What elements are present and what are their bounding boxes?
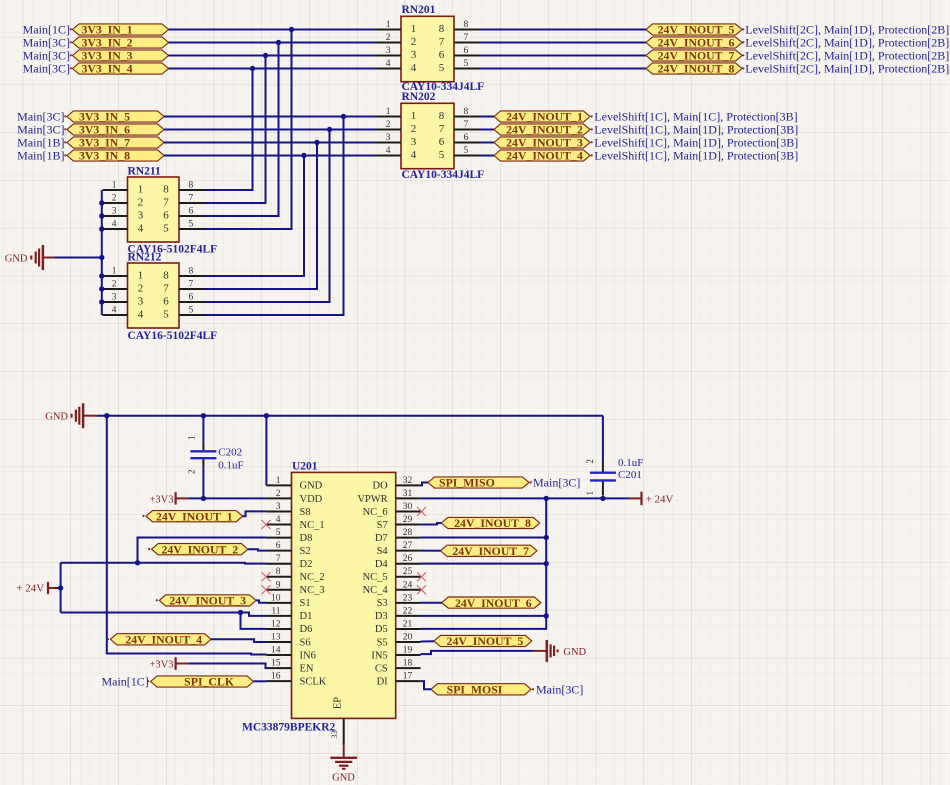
power symbol +24V right [629, 492, 674, 506]
port 24V_INOUT_6 [646, 36, 742, 50]
svg-text:1: 1 [112, 181, 117, 191]
svg-text:19: 19 [403, 646, 413, 656]
svg-text:D1: D1 [300, 611, 313, 622]
svg-text:S1: S1 [300, 598, 311, 609]
svg-text:Main[3C]: Main[3C] [17, 123, 64, 137]
svg-text:Main[3C]: Main[3C] [23, 49, 70, 63]
junction [263, 53, 268, 58]
svg-text:1: 1 [585, 491, 595, 496]
svg-text:D5: D5 [375, 624, 388, 635]
svg-text:2: 2 [138, 197, 144, 209]
wire RN202 pin 7 to 24V_INOUT_2 [479, 129, 494, 131]
wire RN211 pin 6 to 3V3_IN net [205, 43, 279, 217]
svg-text:Main[3C]: Main[3C] [23, 36, 70, 50]
svg-text:CAY16-5102F4LF: CAY16-5102F4LF [128, 330, 218, 342]
svg-text:5: 5 [439, 149, 445, 161]
svg-text:5: 5 [189, 220, 194, 230]
wire U201 pin 19 (IN5) to GND [421, 651, 534, 654]
junction [341, 114, 346, 119]
resistor network RN211 [103, 177, 205, 242]
svg-text:24V_INOUT_7: 24V_INOUT_7 [452, 544, 529, 558]
svg-text:SPI_CLK: SPI_CLK [184, 675, 235, 689]
svg-text:3: 3 [112, 293, 117, 303]
port 3V3_IN_4 [73, 62, 169, 76]
port 24V_INOUT_5 [646, 23, 742, 37]
no-connect X on U201 pin 8 [262, 572, 271, 581]
junction on GND bus at y=203 [99, 200, 104, 205]
svg-text:25: 25 [403, 567, 413, 577]
svg-text:17: 17 [403, 672, 413, 682]
junction VPWR / C201 [600, 496, 605, 501]
wire 24V_INOUT_1 to U201 pin 3 (S8) [243, 511, 267, 516]
wire 24V_INOUT_4 to U201 pin 13 (S6) [211, 639, 266, 642]
svg-text:11: 11 [271, 606, 280, 616]
svg-text:1: 1 [411, 23, 417, 35]
svg-text:24V_INOUT_6: 24V_INOUT_6 [455, 596, 532, 610]
wire 3V3_IN_6 to RN202 pin 2 [164, 129, 376, 131]
svg-text:7: 7 [276, 554, 281, 564]
svg-text:NC_1: NC_1 [300, 520, 325, 531]
no-connect X on U201 pin 24 [417, 585, 426, 594]
svg-text:D4: D4 [375, 559, 389, 570]
wire RN212 pin 8 to 3V3_IN net [205, 156, 305, 277]
svg-text:3: 3 [138, 210, 144, 222]
svg-text:5: 5 [464, 146, 469, 156]
no-connect X on U201 pin 9 [262, 585, 271, 594]
svg-text:20: 20 [403, 633, 413, 643]
port 3V3_IN_5 [67, 110, 164, 124]
svg-text:0.1uF: 0.1uF [618, 457, 643, 469]
svg-text:C202: C202 [218, 447, 242, 459]
power symbol +3V3 at U201 VDD [149, 492, 188, 505]
wire RN202 pin 8 to 24V_INOUT_1 [479, 116, 494, 118]
svg-text:10: 10 [271, 593, 281, 603]
net label LevelShift for 24V_INOUT_7 [742, 49, 949, 63]
svg-text:1: 1 [411, 110, 417, 122]
svg-text:Main[3C]: Main[3C] [536, 683, 583, 697]
svg-text:2: 2 [411, 123, 417, 135]
port 3V3_IN_3 [73, 49, 169, 63]
svg-text:2: 2 [187, 470, 197, 475]
svg-text:4: 4 [386, 59, 391, 69]
svg-text:6: 6 [439, 136, 445, 148]
svg-text:LevelShift[2C], Main[1D], Prot: LevelShift[2C], Main[1D], Protection[2B] [745, 36, 949, 50]
net label LevelShift for 24V_INOUT_2 [591, 123, 799, 137]
resistor network RN201 [376, 16, 479, 81]
svg-text:29: 29 [403, 515, 413, 525]
svg-text:2: 2 [276, 489, 281, 499]
junction bus/D3 [544, 613, 549, 618]
svg-text:2: 2 [112, 194, 117, 204]
svg-text:9: 9 [276, 580, 281, 590]
junction GND bus / left drop [104, 413, 109, 418]
svg-text:1: 1 [187, 436, 197, 441]
svg-text:24V_INOUT_8: 24V_INOUT_8 [454, 516, 531, 530]
svg-text:6: 6 [163, 296, 169, 308]
wire +24V branch to U201 pin 12 (D6) [241, 613, 267, 629]
junction [327, 127, 332, 132]
svg-text:15: 15 [271, 659, 281, 669]
resistor network RN202 [376, 103, 479, 168]
wire RN201 pin 7 to 24V_INOUT_6 [479, 42, 646, 44]
svg-text:1: 1 [138, 184, 144, 196]
wire RN211 pin 5 to 3V3_IN net [205, 30, 292, 230]
port SPI_MISO [428, 476, 529, 490]
svg-text:+3V3: +3V3 [149, 494, 173, 505]
svg-text:Main[1C]: Main[1C] [101, 675, 148, 689]
svg-text:C201: C201 [618, 469, 642, 481]
svg-text:24: 24 [403, 580, 413, 590]
svg-text:21: 21 [403, 620, 413, 630]
wire RN202 pin 6 to 24V_INOUT_3 [479, 142, 494, 144]
svg-text:RN212: RN212 [128, 252, 162, 264]
svg-text:GND: GND [5, 254, 28, 265]
svg-text:S4: S4 [377, 546, 389, 557]
svg-text:4: 4 [112, 306, 117, 316]
wire 24V_INOUT_3 to U201 pin 10 (S1) [256, 600, 266, 602]
svg-text:8: 8 [163, 184, 169, 196]
wire 3V3_IN_3 to RN201 pin 3 [169, 55, 377, 57]
svg-text:7: 7 [464, 33, 469, 43]
wire 3V3_IN_7 to RN202 pin 3 [164, 142, 376, 144]
svg-text:6: 6 [163, 210, 169, 222]
svg-text:GND: GND [563, 647, 586, 658]
wire RN212 pin 5 to 3V3_IN net [205, 117, 344, 316]
port 24V_INOUT_2 [494, 123, 590, 137]
wire 3V3_IN_8 to RN202 pin 4 [164, 155, 376, 157]
svg-text:2: 2 [138, 283, 144, 295]
svg-text:3: 3 [138, 296, 144, 308]
svg-text:7: 7 [439, 123, 445, 135]
port 24V_INOUT_4 (lower) [107, 633, 211, 647]
net label LevelShift for 24V_INOUT_6 [742, 36, 949, 50]
svg-text:24V_INOUT_5: 24V_INOUT_5 [658, 23, 735, 37]
svg-text:3V3_IN_2: 3V3_IN_2 [81, 36, 132, 50]
junction [289, 27, 294, 32]
svg-text:GND: GND [332, 773, 355, 784]
svg-text:LevelShift[2C], Main[1D], Prot: LevelShift[2C], Main[1D], Protection[2B] [745, 23, 949, 37]
svg-text:7: 7 [163, 197, 169, 209]
svg-text:Main[1B]: Main[1B] [17, 136, 64, 150]
port 24V_INOUT_3 [494, 136, 590, 150]
svg-text:S6: S6 [300, 637, 311, 648]
svg-text:5: 5 [163, 309, 169, 321]
svg-text:RN211: RN211 [128, 166, 161, 178]
svg-text:24V_INOUT_8: 24V_INOUT_8 [658, 62, 735, 76]
wire GND symbol to bus [55, 257, 102, 259]
svg-text:3: 3 [386, 133, 391, 143]
svg-text:7: 7 [464, 120, 469, 130]
svg-text:6: 6 [464, 133, 469, 143]
svg-text:7: 7 [189, 280, 194, 290]
wire 3V3_IN_2 to RN201 pin 2 [169, 42, 377, 44]
svg-text:16: 16 [271, 672, 281, 682]
svg-text:2: 2 [386, 33, 391, 43]
svg-text:3V3_IN_1: 3V3_IN_1 [81, 23, 132, 37]
svg-text:RN201: RN201 [402, 4, 436, 16]
wire GND bus horizontal [97, 415, 603, 417]
wire +3V3 to U201 pin 2 VDD [188, 497, 266, 499]
wire C202 pin1 to GND bus [202, 416, 204, 443]
svg-text:MC33879BPEKR2: MC33879BPEKR2 [242, 722, 336, 734]
svg-text:3V3_IN_5: 3V3_IN_5 [79, 110, 130, 124]
wire RN201 pin 8 to 24V_INOUT_5 [479, 29, 646, 31]
net label LevelShift for 24V_INOUT_3 [591, 136, 799, 150]
svg-text:14: 14 [271, 646, 281, 656]
net label Main[3C] for SPI_MISO [530, 476, 581, 490]
port 3V3_IN_6 [67, 123, 164, 137]
wire +24V to U201 pin 7 (D2) [61, 562, 267, 565]
svg-text:7: 7 [189, 194, 194, 204]
svg-text:+ 24V: + 24V [646, 493, 674, 505]
svg-text:8: 8 [464, 20, 469, 30]
wire RN201 pin 5 to 24V_INOUT_8 [479, 68, 646, 70]
svg-text:6: 6 [189, 207, 194, 217]
svg-text:NC_5: NC_5 [363, 572, 388, 583]
wire RN211 pin 7 to 3V3_IN net [205, 56, 266, 204]
svg-text:33: 33 [329, 730, 339, 739]
net label LevelShift for 24V_INOUT_8 [742, 62, 949, 76]
power symbol GND right of U201 [534, 640, 587, 662]
svg-text:Main[1C]: Main[1C] [23, 23, 70, 37]
svg-text:2: 2 [585, 459, 595, 464]
wire 24V_INOUT_2 to U201 pin 6 (S2) [248, 549, 267, 550]
svg-text:32: 32 [403, 476, 413, 486]
net label LevelShift for 24V_INOUT_1 [591, 110, 798, 124]
svg-text:D2: D2 [300, 559, 313, 570]
port 24V_INOUT_5 (lower right) [434, 634, 532, 648]
svg-text:24V_INOUT_5: 24V_INOUT_5 [447, 634, 524, 648]
wire RN212 pin 7 to 3V3_IN net [205, 143, 318, 290]
svg-text:Main[3C]: Main[3C] [533, 476, 580, 490]
wire 3V3_IN_4 to RN201 pin 4 [169, 68, 377, 70]
svg-text:NC_2: NC_2 [300, 572, 325, 583]
port 3V3_IN_2 [73, 36, 169, 50]
svg-text:4: 4 [411, 149, 417, 161]
svg-text:CAY10-334J4LF: CAY10-334J4LF [402, 169, 485, 181]
svg-text:NC_3: NC_3 [300, 585, 325, 596]
svg-text:S3: S3 [377, 598, 388, 609]
svg-text:8: 8 [276, 567, 281, 577]
svg-text:23: 23 [403, 593, 413, 603]
svg-text:3V3_IN_4: 3V3_IN_4 [81, 62, 132, 76]
svg-text:S5: S5 [377, 637, 388, 648]
junction +24V / D8 branch [135, 560, 140, 565]
port 24V_INOUT_8 (lower right) [441, 516, 539, 530]
wire GND bus left of RN211 and RN212 [101, 190, 103, 315]
svg-text:GND: GND [45, 412, 68, 423]
svg-text:5: 5 [464, 59, 469, 69]
svg-text:2: 2 [386, 120, 391, 130]
svg-text:SPI_MISO: SPI_MISO [439, 476, 495, 490]
port 24V_INOUT_2 (lower) [148, 542, 248, 556]
port 3V3_IN_8 [67, 149, 164, 163]
svg-text:8: 8 [189, 267, 194, 277]
resistor network RN212 [103, 263, 205, 328]
svg-text:1: 1 [386, 107, 391, 117]
svg-text:3: 3 [411, 49, 417, 61]
svg-text:Main[3C]: Main[3C] [17, 110, 64, 124]
svg-text:7: 7 [439, 36, 445, 48]
wire U201 pin 22 (D3) to bus [421, 615, 547, 617]
wire RN211 pin 8 to 3V3_IN net [205, 69, 253, 191]
svg-text:24V_INOUT_6: 24V_INOUT_6 [658, 36, 735, 50]
IC U201 MC33879BPEKR2 body [266, 472, 420, 718]
svg-text:+3V3: +3V3 [149, 659, 173, 670]
svg-text:3: 3 [386, 46, 391, 56]
svg-text:6: 6 [189, 293, 194, 303]
junction bus/D7 [544, 535, 549, 540]
svg-text:S7: S7 [377, 520, 388, 531]
svg-text:0.1uF: 0.1uF [218, 459, 243, 471]
wire U201 pin 26 (D4) to bus [421, 563, 547, 565]
junction bus/D4 [544, 561, 549, 566]
svg-text:+ 24V: + 24V [16, 583, 44, 595]
svg-text:S2: S2 [300, 546, 311, 557]
svg-text:3: 3 [276, 502, 281, 512]
wire C202 pin2 to VDD net [202, 468, 204, 499]
power symbol GND top-left of lower section [45, 403, 97, 428]
svg-text:D7: D7 [375, 533, 388, 544]
svg-text:D3: D3 [375, 611, 388, 622]
svg-text:NC_6: NC_6 [363, 507, 388, 518]
svg-text:8: 8 [439, 23, 445, 35]
net label Main[3C] for 3V3_IN_5 [17, 110, 66, 124]
wire right bus (+24V to switch drains) [421, 498, 547, 629]
capacitor C201 [585, 459, 616, 496]
net label Main[1B] for 3V3_IN_8 [17, 149, 66, 163]
svg-text:3: 3 [411, 136, 417, 148]
svg-text:4: 4 [276, 515, 281, 525]
junction [301, 153, 306, 158]
wire +24V branch to U201 pin 5 (D8) [138, 538, 267, 563]
wire U201 pin 28 (D7) to bus [421, 537, 547, 539]
wire U201 pin 29 (S7) to 24V_INOUT_8 [421, 523, 442, 525]
svg-text:Main[3C]: Main[3C] [23, 62, 70, 76]
svg-text:EP: EP [333, 697, 344, 709]
svg-text:3V3_IN_6: 3V3_IN_6 [79, 123, 130, 137]
svg-text:12: 12 [271, 620, 281, 630]
port 3V3_IN_1 [73, 23, 169, 37]
svg-text:DO: DO [373, 481, 389, 492]
port 24V_INOUT_3 (lower) [156, 594, 256, 608]
svg-text:1: 1 [276, 476, 281, 486]
svg-text:3: 3 [112, 207, 117, 217]
power symbol GND mid-left [5, 245, 55, 270]
svg-text:6: 6 [276, 541, 281, 551]
port 24V_INOUT_8 [646, 62, 742, 76]
svg-text:6: 6 [439, 49, 445, 61]
port 24V_INOUT_1 (lower) [142, 509, 242, 523]
wire 3V3_IN_5 to RN202 pin 1 [164, 116, 376, 118]
svg-text:CS: CS [375, 663, 388, 674]
wire U201 pin 32 (DO) to SPI_MISO [421, 483, 428, 486]
svg-text:8: 8 [439, 110, 445, 122]
svg-text:24V_INOUT_3: 24V_INOUT_3 [169, 594, 246, 608]
svg-text:31: 31 [403, 489, 413, 499]
svg-text:Main[1B]: Main[1B] [17, 149, 64, 163]
junction on GND bus at y=229 [99, 226, 104, 231]
svg-text:3V3_IN_3: 3V3_IN_3 [81, 49, 132, 63]
svg-text:RN202: RN202 [402, 91, 436, 103]
junction +24V / D6 branch [238, 610, 243, 615]
svg-text:26: 26 [403, 554, 413, 564]
svg-text:LevelShift[2C], Main[1D], Prot: LevelShift[2C], Main[1D], Protection[2B] [745, 49, 949, 63]
svg-text:5: 5 [439, 62, 445, 74]
net label Main[1B] for 3V3_IN_7 [17, 136, 66, 150]
svg-text:SCLK: SCLK [300, 676, 327, 687]
pin 33 EP stub [329, 718, 344, 745]
svg-text:28: 28 [403, 528, 413, 538]
wire U201 pin 23 (S3) to 24V_INOUT_6 [421, 602, 442, 604]
junction GND bus / C202 [201, 413, 206, 418]
svg-text:4: 4 [386, 146, 391, 156]
junction on GND bus at y=257.5 [99, 255, 104, 260]
wire SPI_CLK to U201 pin 16 (SCLK) [254, 680, 267, 682]
junction on GND bus at y=276 [99, 273, 104, 278]
wire RN201 pin 6 to 24V_INOUT_7 [479, 55, 646, 57]
svg-text:VDD: VDD [300, 494, 323, 505]
junction on GND bus at y=216 [99, 213, 104, 218]
svg-text:24V_INOUT_1: 24V_INOUT_1 [156, 509, 233, 523]
junction on GND bus at y=302 [99, 299, 104, 304]
wire +24V to U201 pin 11 (D1) [61, 613, 267, 616]
no-connect X on U201 pin 30 [417, 507, 426, 516]
wire GND drop to U201 pin 14 (IN6) [107, 416, 267, 655]
port SPI_MOSI [431, 683, 531, 697]
svg-text:8: 8 [464, 107, 469, 117]
svg-text:1: 1 [112, 267, 117, 277]
svg-text:5: 5 [276, 528, 281, 538]
svg-text:D6: D6 [300, 624, 313, 635]
svg-text:LevelShift[1C], Main[1D], Prot: LevelShift[1C], Main[1D], Protection[3B] [594, 123, 798, 137]
junction GND bus / U201 pin 1 [264, 413, 269, 418]
net label Main[3C] for 3V3_IN_4 [23, 62, 72, 76]
svg-text:30: 30 [403, 502, 413, 512]
net label Main[3C] for 3V3_IN_2 [23, 36, 72, 50]
svg-text:1: 1 [386, 20, 391, 30]
power symbol +3V3 at U201 EN [149, 657, 188, 670]
svg-text:18: 18 [403, 659, 413, 669]
svg-text:3V3_IN_8: 3V3_IN_8 [79, 149, 130, 163]
wire +3V3 to U201 pin 15 (EN) [188, 664, 266, 669]
svg-text:24V_INOUT_7: 24V_INOUT_7 [658, 49, 735, 63]
svg-text:24V_INOUT_1: 24V_INOUT_1 [506, 110, 583, 124]
port 24V_INOUT_4 [494, 149, 590, 163]
svg-text:24V_INOUT_3: 24V_INOUT_3 [506, 136, 583, 150]
no-connect X on U201 pin 4 [262, 520, 271, 529]
wire 3V3_IN_1 to RN201 pin 1 [169, 29, 377, 31]
wire U201 pin 27 (S4) to 24V_INOUT_7 [421, 550, 441, 552]
port 3V3_IN_7 [67, 136, 164, 150]
svg-text:IN6: IN6 [300, 650, 316, 661]
junction on GND bus at y=289 [99, 286, 104, 291]
net label Main[3C] for 3V3_IN_6 [17, 123, 66, 137]
svg-text:LevelShift[1C], Main[1C], Prot: LevelShift[1C], Main[1C], Protection[3B] [594, 110, 797, 124]
net label Main[1C] for 3V3_IN_1 [23, 23, 72, 37]
no-connect X on U201 pin 25 [417, 572, 426, 581]
svg-text:4: 4 [112, 220, 117, 230]
svg-text:VPWR: VPWR [357, 494, 387, 505]
wire RN202 pin 5 to 24V_INOUT_4 [479, 155, 494, 157]
power symbol earth GND below U201 [330, 758, 357, 784]
port 24V_INOUT_7 [646, 49, 742, 63]
net label Main[3C] for SPI_MOSI [532, 683, 583, 697]
svg-text:6: 6 [464, 46, 469, 56]
wire GND bus right corner to C201 [602, 416, 604, 463]
port SPI_CLK [147, 675, 254, 689]
wire U201 pin 31 (VPWR) to +24V and C201 [421, 497, 629, 499]
